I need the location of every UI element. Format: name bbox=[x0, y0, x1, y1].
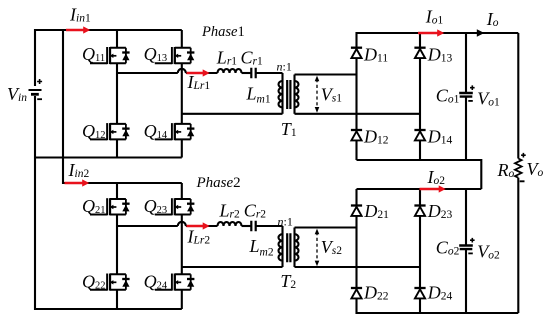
wire: rectifier1 left leg + top rail bbox=[357, 33, 519, 160]
wire: phase2 right leg source Q24 bbox=[181, 290, 183, 309]
wire: phase1 left leg drain Q11 bbox=[116, 30, 118, 48]
wire: T1 secondary bottom to rectifier1 right leg bbox=[295, 113, 421, 115]
transistor Q22 bbox=[90, 274, 130, 291]
wire: phase2 left leg drain Q21 bbox=[116, 183, 118, 199]
wire: phase2 right leg drain Q23 bbox=[181, 183, 183, 199]
wire: node A1 to hop bbox=[117, 72, 178, 74]
wire: T1 primary return to node B1 bbox=[182, 113, 283, 115]
diode D24 bbox=[414, 288, 425, 298]
transistor Q12 bbox=[90, 123, 130, 140]
wire: T2 primary return to node B2 bbox=[182, 266, 283, 268]
current arrow ILr2 (red) bbox=[187, 222, 210, 229]
current arrow ILr1 (red) bbox=[187, 69, 210, 76]
wire: hop to Lr2 bbox=[186, 225, 218, 227]
wire: phase2 right leg mid (node B2) bbox=[181, 215, 183, 275]
transformer T2 primary winding Lm2 bbox=[279, 234, 283, 260]
wire: Co1 leg top bbox=[465, 33, 467, 93]
capacitor Cr2 bbox=[251, 221, 255, 232]
wire: phase1 left leg mid (node A1) bbox=[116, 63, 118, 124]
transformer T1 primary lead/baseline bbox=[281, 73, 283, 114]
wire: battery top lead + phase1 top rail bbox=[35, 30, 182, 86]
wire: phase1 right leg mid (node B1) bbox=[181, 63, 183, 124]
wire: Lr2 to Cr2 bbox=[242, 225, 252, 227]
svg-text:n:1: n:1 bbox=[277, 60, 292, 74]
wire: phase2 left leg source Q22 bbox=[116, 290, 118, 309]
battery plus mark bbox=[37, 79, 42, 84]
wire: Cr1 to T1 primary bbox=[256, 72, 283, 74]
inductor Lr2 bbox=[218, 222, 242, 226]
wire: Cr2 to T2 primary bbox=[256, 225, 283, 227]
current arrow Iin1 (red) bbox=[66, 26, 90, 33]
svg-text:n:1: n:1 bbox=[278, 214, 293, 228]
wire: rectifier2 top rail bbox=[357, 188, 482, 190]
wire: battery bottom lead + left wall + phase2 bridge bottom rail bbox=[35, 96, 182, 309]
wire: rectifier2 D23/D24 leg bbox=[419, 189, 421, 313]
transformer T2 secondary lead/baseline bbox=[293, 228, 295, 268]
capacitor Cr1 bbox=[251, 68, 255, 79]
Ro minus mark bbox=[520, 180, 525, 182]
diode D21 bbox=[351, 206, 362, 216]
wire: T1 secondary top to rectifier1 left leg bbox=[295, 73, 357, 75]
wire: Co2 leg top bbox=[465, 189, 467, 246]
current arrow Io (black) bbox=[477, 29, 485, 37]
diode D22 bbox=[351, 288, 362, 298]
diode D13 bbox=[414, 48, 425, 58]
diode D11 bbox=[351, 48, 362, 58]
current arrow Io1 (red) bbox=[418, 29, 444, 36]
wire: T2 secondary top to rectifier2 left leg bbox=[295, 226, 357, 228]
wire: phase1 right leg source Q14 bbox=[181, 139, 183, 157]
wire hop over right leg phase1 bbox=[178, 69, 186, 73]
Co2 plus mark bbox=[470, 238, 475, 243]
transformer T1 core bbox=[287, 80, 290, 109]
transformer T2 core bbox=[287, 233, 290, 262]
Co1 minus mark bbox=[468, 100, 473, 102]
resistor Ro zigzag bbox=[515, 159, 522, 178]
diode D14 bbox=[414, 130, 425, 140]
Ro plus mark bbox=[521, 153, 526, 158]
wire: phase1 right leg drain Q13 bbox=[181, 30, 183, 48]
wire: phase1 bridge bottom rail bbox=[35, 156, 182, 158]
wire: rectifier1 bottom rail + series step down bbox=[357, 160, 482, 189]
capacitor Co2 bbox=[459, 246, 473, 250]
Vs1 sense arrow (dashed) bbox=[315, 76, 320, 113]
current arrow Iin2 (red) bbox=[65, 179, 90, 186]
capacitor Co1 bbox=[459, 93, 473, 97]
transistor Q11 bbox=[90, 47, 130, 64]
transistor Q13 bbox=[155, 47, 195, 64]
transistor Q21 bbox=[90, 198, 130, 215]
transformer T2 secondary winding bbox=[295, 234, 299, 260]
svg-text:Phase2: Phase2 bbox=[196, 175, 241, 191]
wire: hop to Lr1 bbox=[186, 72, 218, 74]
wire: Lr1 to Cr1 bbox=[242, 72, 252, 74]
Co2 minus mark bbox=[468, 252, 473, 254]
transformer T2 primary lead/baseline bbox=[281, 226, 283, 267]
wire: phase2 feed vertical + phase2 top rail bbox=[63, 30, 182, 183]
wire: phase2 left leg mid (node A2) bbox=[116, 215, 118, 275]
wire: Co1 leg bottom bbox=[465, 97, 467, 160]
wire: right wall top (to Ro) bbox=[517, 33, 519, 159]
wire: phase1 left leg source Q12 bbox=[116, 139, 118, 157]
svg-text:Phase1: Phase1 bbox=[201, 24, 245, 40]
wire: node A2 to hop bbox=[117, 225, 178, 227]
transistor Q14 bbox=[155, 123, 195, 140]
transistor Q24 bbox=[155, 274, 195, 291]
wire: rectifier2 left leg + bottom rail bbox=[357, 189, 519, 313]
transformer T1 secondary lead/baseline bbox=[293, 75, 295, 114]
battery minus mark bbox=[37, 98, 42, 100]
transformer T1 primary winding Lm1 bbox=[279, 81, 283, 107]
wire: Co2 leg bottom bbox=[465, 249, 467, 313]
wire: T2 secondary bottom to rectifier2 right leg bbox=[295, 266, 421, 268]
wire hop over right leg phase2 bbox=[178, 222, 186, 226]
transistor Q23 bbox=[155, 198, 195, 215]
wire: rectifier1 D13/D14 leg bbox=[419, 33, 421, 160]
transformer T1 secondary winding bbox=[295, 81, 299, 107]
diode D12 bbox=[351, 130, 362, 140]
battery Vin plates bbox=[29, 90, 42, 94]
diode D23 bbox=[414, 206, 425, 216]
current arrow Io2 (red) bbox=[420, 185, 446, 192]
inductor Lr1 bbox=[218, 69, 242, 73]
wire: right wall bottom (from Ro) bbox=[517, 178, 519, 313]
Co1 plus mark bbox=[470, 85, 475, 90]
Vs2 sense arrow (dashed) bbox=[315, 229, 320, 267]
